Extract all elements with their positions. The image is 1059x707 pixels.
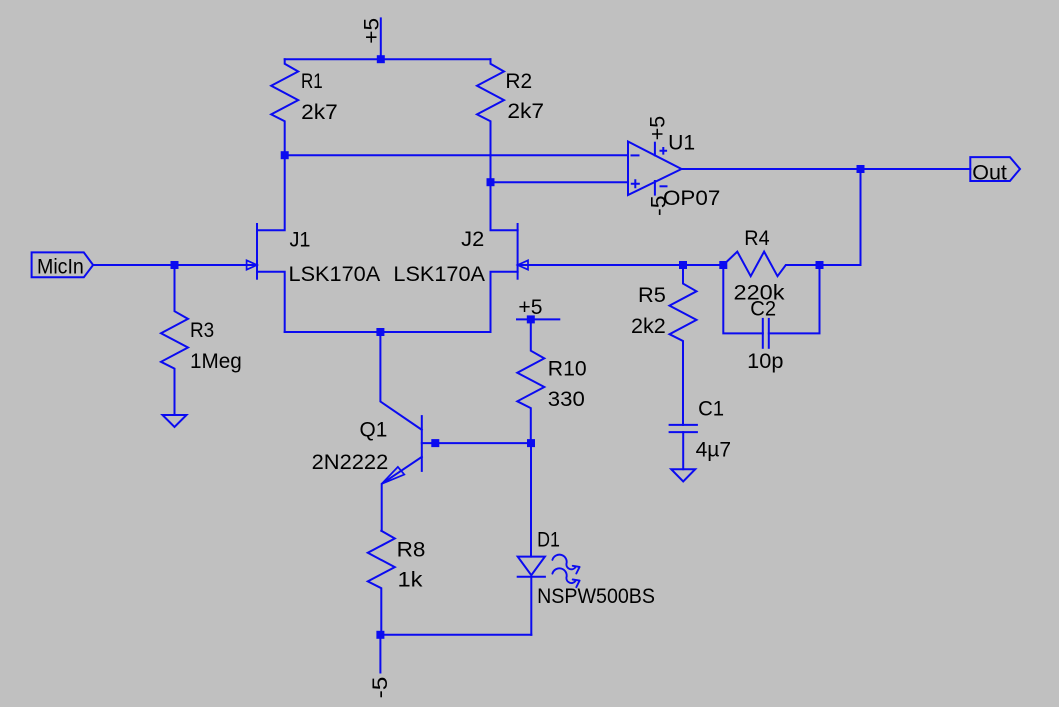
svg-text:R3: R3	[190, 318, 214, 342]
svg-text:-5: -5	[368, 677, 392, 699]
svg-text:Out: Out	[972, 160, 1007, 184]
svg-text:NSPW500BS: NSPW500BS	[537, 584, 655, 608]
svg-text:R8: R8	[397, 537, 426, 561]
svg-text:R1: R1	[301, 69, 323, 93]
svg-text:U1: U1	[668, 131, 695, 155]
svg-text:MicIn: MicIn	[37, 254, 84, 278]
svg-text:J1: J1	[290, 227, 311, 251]
svg-text:2k2: 2k2	[631, 314, 666, 338]
svg-text:2k7: 2k7	[507, 99, 544, 123]
svg-text:+5: +5	[646, 116, 670, 141]
svg-text:OP07: OP07	[663, 186, 720, 210]
svg-text:R5: R5	[638, 283, 666, 307]
svg-text:2N2222: 2N2222	[312, 450, 389, 474]
svg-text:LSK170A: LSK170A	[393, 262, 485, 286]
svg-text:D1: D1	[537, 528, 560, 552]
svg-text:J2: J2	[461, 227, 484, 251]
svg-text:C2: C2	[750, 296, 776, 320]
svg-text:4µ7: 4µ7	[696, 438, 732, 462]
svg-text:1Meg: 1Meg	[190, 349, 242, 373]
svg-text:+5: +5	[518, 295, 542, 319]
svg-text:+5: +5	[360, 18, 384, 44]
svg-text:Q1: Q1	[360, 418, 388, 442]
svg-text:10p: 10p	[747, 349, 783, 373]
svg-text:C1: C1	[698, 396, 724, 420]
svg-text:-5: -5	[646, 195, 670, 216]
svg-text:330: 330	[548, 387, 585, 411]
svg-text:2k7: 2k7	[301, 100, 338, 124]
svg-text:R10: R10	[548, 357, 587, 381]
svg-text:LSK170A: LSK170A	[289, 262, 381, 286]
svg-text:R4: R4	[744, 226, 769, 250]
svg-text:1k: 1k	[398, 568, 423, 592]
svg-text:R2: R2	[505, 69, 532, 93]
